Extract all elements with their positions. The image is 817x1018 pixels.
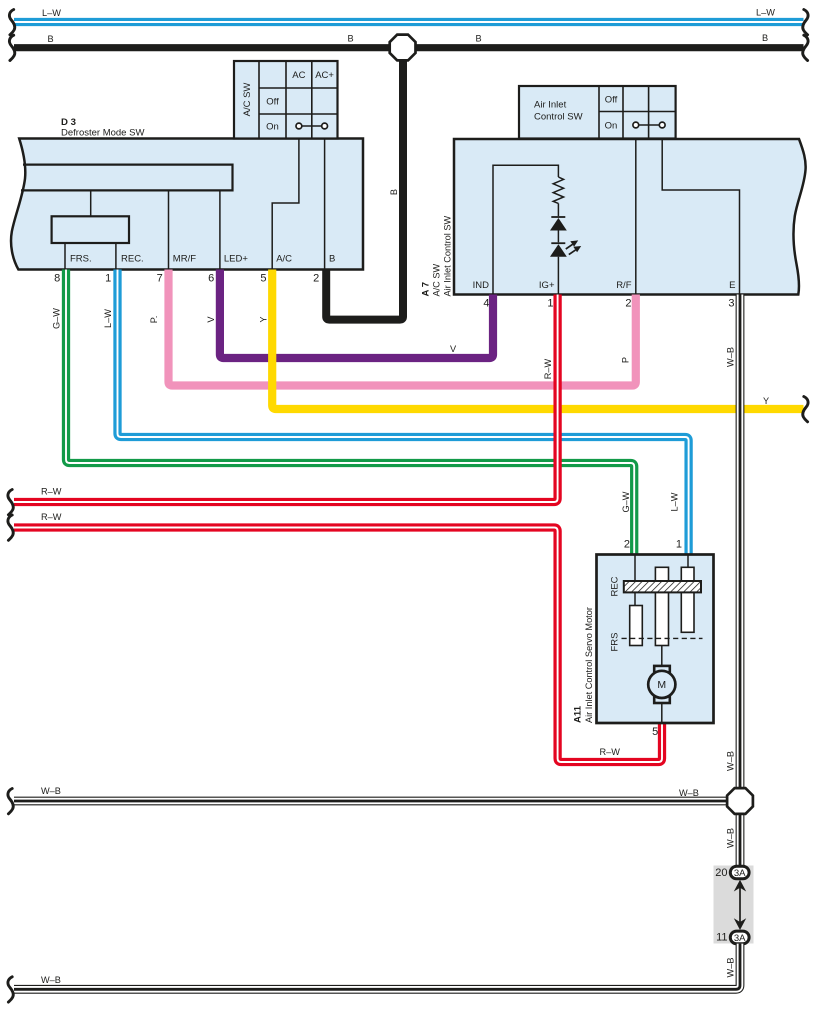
svg-text:FRS.: FRS. bbox=[70, 254, 92, 265]
A7 internal E line bbox=[662, 139, 739, 295]
svg-text:R–W: R–W bbox=[600, 747, 621, 757]
svg-text:B: B bbox=[762, 33, 768, 43]
svg-text:REC: REC bbox=[609, 576, 620, 596]
svg-text:E: E bbox=[729, 280, 735, 291]
svg-text:5: 5 bbox=[260, 273, 266, 285]
A7 pin name labels bbox=[473, 280, 736, 291]
svg-text:G–W: G–W bbox=[621, 491, 631, 512]
wire B top bus bbox=[9, 33, 808, 61]
connector A7 A/C SW Air Inlet Control SW block bbox=[420, 139, 805, 297]
Air Inlet Control SW On contact bbox=[633, 122, 665, 128]
D3 internal bus bar bbox=[21, 165, 233, 191]
A11 REC wiper hatched bar bbox=[609, 576, 701, 596]
svg-text:4: 4 bbox=[483, 298, 489, 310]
svg-text:W–B: W–B bbox=[725, 958, 735, 978]
svg-text:V: V bbox=[450, 344, 457, 354]
svg-text:D 3: D 3 bbox=[61, 117, 76, 128]
svg-text:A/C: A/C bbox=[276, 254, 292, 265]
svg-text:B: B bbox=[476, 34, 482, 44]
D3 internal wiring bbox=[65, 139, 325, 270]
svg-text:Off: Off bbox=[605, 95, 618, 106]
svg-text:3: 3 bbox=[728, 298, 734, 310]
LED diode 2 with emission arrows inside A7 bbox=[550, 231, 581, 295]
svg-text:M: M bbox=[657, 679, 666, 691]
svg-text:Air Inlet Control Servo Motor: Air Inlet Control Servo Motor bbox=[584, 607, 594, 723]
actuator A11 Air Inlet Control Servo Motor block bbox=[573, 555, 714, 724]
wire L-W top bus bbox=[9, 8, 808, 35]
A/C SW switch table bbox=[234, 61, 338, 139]
wire B drop from junction to D3 pin 2 bbox=[326, 48, 403, 320]
svg-text:1: 1 bbox=[105, 273, 111, 285]
junction octagon 2 on W-B bbox=[727, 788, 753, 814]
wire Y yellow A/C to right edge bbox=[259, 270, 809, 422]
wire W-B horizontal mid to junction 2 bbox=[8, 786, 738, 814]
svg-text:11: 11 bbox=[716, 932, 727, 944]
svg-text:L–W: L–W bbox=[756, 8, 775, 18]
svg-text:AC+: AC+ bbox=[315, 70, 334, 81]
wire L-W blue REC to A11 pin 1 bbox=[103, 270, 689, 555]
svg-text:IND: IND bbox=[473, 280, 490, 291]
svg-text:R–W: R–W bbox=[41, 487, 62, 497]
svg-text:On: On bbox=[605, 121, 618, 132]
svg-text:1: 1 bbox=[676, 539, 682, 551]
connector half 20 3A bbox=[715, 866, 749, 879]
svg-text:REC.: REC. bbox=[121, 254, 144, 265]
svg-text:R–W: R–W bbox=[543, 358, 553, 379]
svg-text:On: On bbox=[266, 122, 279, 133]
svg-text:V: V bbox=[206, 316, 216, 323]
A7 pin numbers 4 1 2 3 bbox=[483, 298, 734, 310]
svg-text:A 7: A 7 bbox=[420, 282, 431, 297]
svg-text:8: 8 bbox=[54, 273, 60, 285]
Air Inlet Control SW switch table bbox=[519, 86, 676, 139]
A11 FRS dashed position line bbox=[609, 633, 702, 652]
LED diode 1 inside A7 bbox=[550, 203, 567, 230]
svg-text:MR/F: MR/F bbox=[173, 254, 196, 265]
connector D3 Defroster Mode SW block bbox=[11, 117, 363, 270]
svg-text:20: 20 bbox=[715, 867, 727, 879]
svg-text:A11: A11 bbox=[573, 705, 584, 723]
svg-text:2: 2 bbox=[624, 539, 630, 551]
svg-text:7: 7 bbox=[157, 273, 163, 285]
D3 pin name labels bbox=[70, 254, 335, 265]
wire W-B from E pin down to junction 2 bbox=[725, 295, 740, 867]
svg-text:Control SW: Control SW bbox=[534, 112, 583, 123]
svg-text:W–B: W–B bbox=[725, 347, 735, 367]
svg-text:1: 1 bbox=[547, 298, 553, 310]
svg-text:B: B bbox=[389, 189, 399, 195]
svg-text:6: 6 bbox=[208, 273, 214, 285]
wire R-W red left edge to A11 pin 5 bbox=[8, 512, 662, 762]
wire W-B from connector 11 to bottom bus bbox=[8, 944, 740, 1003]
wire G-W green FRS to A11 pin 2 bbox=[52, 270, 635, 555]
svg-text:B: B bbox=[48, 34, 54, 44]
svg-text:W–B: W–B bbox=[725, 751, 735, 771]
svg-text:L–W: L–W bbox=[670, 492, 680, 511]
svg-text:Y: Y bbox=[763, 396, 769, 406]
wire R-W red IG+ to left edge bbox=[8, 295, 558, 515]
svg-text:R/F: R/F bbox=[616, 280, 632, 291]
D3 internal contact box bbox=[52, 216, 129, 243]
svg-text:Air Inlet: Air Inlet bbox=[534, 100, 567, 111]
svg-text:2: 2 bbox=[625, 298, 631, 310]
svg-text:Defroster Mode SW: Defroster Mode SW bbox=[61, 128, 144, 139]
svg-text:2: 2 bbox=[313, 273, 319, 285]
resistor inside A7 bbox=[553, 177, 563, 203]
pass-through arrows bbox=[734, 880, 746, 930]
motor M inside A11 bbox=[648, 646, 675, 724]
A11 position slots bbox=[630, 567, 694, 645]
svg-text:R–W: R–W bbox=[41, 512, 62, 522]
A11 pin number 5 bbox=[652, 726, 658, 738]
svg-text:FRS: FRS bbox=[609, 633, 620, 652]
svg-text:A/C SW: A/C SW bbox=[431, 264, 441, 297]
svg-text:Y: Y bbox=[259, 316, 269, 322]
svg-text:Air Inlet Control SW: Air Inlet Control SW bbox=[443, 216, 453, 297]
svg-text:3A: 3A bbox=[734, 868, 746, 879]
svg-text:P.: P. bbox=[149, 316, 159, 324]
svg-text:AC: AC bbox=[292, 70, 305, 81]
svg-text:IG+: IG+ bbox=[539, 280, 555, 291]
svg-text:W–B: W–B bbox=[679, 788, 699, 798]
A7 internal wiring IND to IG+ bbox=[493, 165, 558, 294]
svg-text:W–B: W–B bbox=[41, 786, 61, 796]
junction octagon on B bus bbox=[390, 35, 416, 61]
connector half 11 3A bbox=[716, 931, 749, 944]
svg-text:B: B bbox=[329, 254, 335, 265]
svg-text:L–W: L–W bbox=[103, 309, 113, 328]
A7 internal R/F line bbox=[635, 139, 637, 295]
connector pass-through 3A block bbox=[714, 866, 754, 944]
svg-text:B: B bbox=[348, 34, 354, 44]
svg-text:L–W: L–W bbox=[42, 8, 61, 18]
svg-text:W–B: W–B bbox=[41, 975, 61, 985]
A11 internal pin lines bbox=[635, 555, 688, 606]
svg-text:3A: 3A bbox=[734, 933, 746, 944]
svg-text:A/C SW: A/C SW bbox=[242, 83, 253, 117]
A11 pin numbers 2 1 bbox=[624, 539, 682, 551]
svg-text:G–W: G–W bbox=[52, 308, 62, 329]
svg-text:W–B: W–B bbox=[725, 828, 735, 848]
A/C SW On contact bbox=[296, 123, 328, 129]
wire P pink MR/F to R/F bbox=[149, 270, 636, 386]
svg-text:LED+: LED+ bbox=[224, 254, 248, 265]
wire V purple LED+ to IND bbox=[206, 270, 493, 359]
D3 pin numbers 8 1 7 6 5 2 bbox=[54, 273, 319, 285]
svg-text:5: 5 bbox=[652, 726, 658, 738]
svg-text:P: P bbox=[621, 357, 631, 363]
svg-text:Off: Off bbox=[266, 97, 279, 108]
